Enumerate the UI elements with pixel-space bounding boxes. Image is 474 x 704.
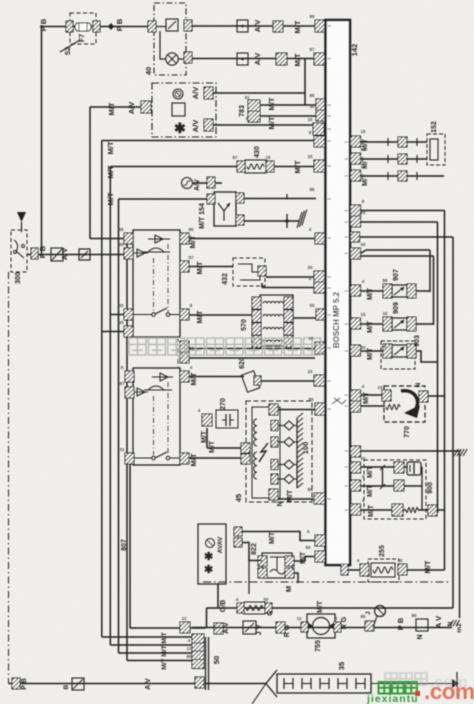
822 conn l2 [258,568,267,578]
wire 783 b [260,115,317,117]
spark plug 2 [271,437,278,447]
relay1 diode top [155,235,163,243]
wire 152 c [361,175,445,177]
wire 432 to relay [189,266,233,268]
wire relay1 r1 to ecu [189,238,316,240]
RG box [276,622,285,633]
inductor row body [244,602,265,614]
junction v41 [40,253,43,256]
ecu connector R15 [351,480,361,491]
wire 900 row2 [361,509,393,511]
ecu connector L10 [314,271,325,282]
wire fuse row horizontal [42,26,151,28]
relay2 conn right2 [180,453,189,464]
wire 620 to ecu [261,380,315,382]
wire 430 right [274,166,314,168]
900 conn a [394,462,404,473]
ecu connector L16 [315,403,326,415]
570 coil a [263,302,283,304]
box 40 connector left [148,21,156,32]
alternator conn right1 [236,193,244,203]
wire bus b [361,221,438,223]
wire 45 top to ecu [278,409,316,411]
capacitor 270 conn [202,414,212,426]
wire 900 b [361,485,395,487]
relay2 box [133,368,180,465]
755 conn right [334,622,341,632]
strip 35 pin 3 [319,678,321,689]
wire bus c [360,236,454,238]
570 conn col left a [252,297,261,309]
injector 903 [383,344,392,358]
wire 255 left [347,569,360,571]
tick 152 2 [387,155,389,163]
ignition switch 300 box [11,230,27,272]
ecu connector R12 [351,401,361,412]
wire 770 ret [428,395,445,397]
relay2 dashdot b [167,382,169,455]
spark plug 3 [271,460,278,470]
ecu connector L12 [316,309,326,320]
wire stair2 [110,644,192,646]
wire switch out [27,254,124,256]
wire relay2 left down 807 [129,464,131,628]
box 40 connector right top [184,20,192,31]
wire 770 a [361,394,384,396]
knock sensor 620 [241,371,259,392]
570 conn col left c [252,323,261,335]
wire avav drop [217,583,219,608]
ac connector right bottom [204,119,213,131]
755 splice [365,621,374,631]
770 conn b [419,391,428,402]
splice box2 [79,249,90,260]
alternator conn left [207,194,215,204]
relay2 contact [152,456,156,460]
fan symbol [173,89,183,99]
wire inj3 ret [416,351,438,362]
tick 152 3 [387,172,389,180]
wire 807 to conn [130,627,180,629]
ecu connector L4 [316,110,326,121]
wire 822 r2 down [292,573,298,583]
50 conn stack b [192,643,204,652]
logo jiexiantu [379,682,391,694]
strip 35 body [277,674,371,693]
wire ac left [90,106,141,108]
822 conn r2 [285,568,294,578]
wire battery feed vertical [41,27,43,254]
relay1 conn left3 [124,309,133,320]
capacitor plates [222,419,226,421]
relay1 conn left4 [124,326,133,337]
connector 152 dashed box [427,134,445,165]
relay1 contact [152,313,156,317]
wire y199 [119,198,208,200]
ecu connector L6 [314,136,325,147]
relay1 transistor [148,248,164,252]
connector 152 inner [430,139,438,160]
900 conn b [394,480,404,491]
relay2 diode top [160,373,168,381]
component 430 conn right [266,161,274,172]
relay2 conn left2 [125,387,134,398]
sensor 432 inner [238,264,260,280]
key symbol [17,212,26,222]
ECU BOSCH MP 5.2 body [326,20,351,565]
node junction top [40,25,43,28]
horn circle [375,606,386,617]
component 783 box b [248,111,260,122]
bus vertical 3 [118,199,120,653]
relay2 dashdot a [153,396,155,455]
wire bus e [361,255,434,257]
strip 35 pin 4 [337,678,339,689]
motor 755 [307,614,335,638]
ecu connector L2 [314,53,325,65]
strip 35 pin 2 [301,678,303,689]
wire 432 sig b [262,287,314,289]
wire relay1 l3 [110,314,124,316]
ecu connector R4 [351,205,361,216]
fuse F7 body [75,23,91,31]
fuse F7 connector left [66,21,73,32]
wire ground tick upper [286,194,288,200]
ECU pin ticks [328,25,332,27]
wire bus a drop [444,211,446,571]
wire relay2 r2 stub [189,376,244,378]
wire 154 lower [244,220,299,222]
wire 570 to ecu [293,317,317,319]
spark plug 1 [271,421,278,431]
ecu connector R5 [351,216,361,227]
wire row1 [192,25,316,27]
relay1 conn right1 [180,233,189,244]
square symbol [172,103,185,116]
fuse F7 dashed box [70,13,96,44]
wire row2 [192,58,314,60]
wire ac bus vertical [89,107,91,239]
inductor row conn r [265,603,272,613]
wire 783 a [260,104,317,106]
wire bottom long [9,683,267,685]
900 row2 resistor [406,508,418,513]
ecu connector R8 [351,285,361,296]
splice row1 b [273,21,283,32]
bus vertical 4 [126,239,128,661]
injector 903 dashed [381,341,415,369]
alternator star symbol [218,203,224,211]
relay1 conn right2 [180,261,189,272]
45 conn left b [241,454,250,464]
inductor 255 dashed [368,559,399,582]
strip 35 chevron [266,670,277,697]
wire branch row2 down [304,59,306,106]
ecu connector L1 [315,20,326,32]
strip 35 pin 5 [355,678,357,689]
strip 35 tail [371,683,457,685]
wire avav conn2 path [242,543,262,561]
wire 152 a [361,141,428,143]
wire inj3 [361,350,384,352]
ecu connector L7 [314,160,325,172]
ecu connector R16 [351,504,361,515]
relay1 conn bottom [180,341,189,352]
wire 770 b [361,405,386,407]
822 conn l1 [258,556,267,566]
tach circle S [182,178,193,189]
900 battery [407,462,421,475]
ecu connector R2 [351,153,361,164]
900 wire inner [404,466,407,468]
relay2 conn left1 [125,371,134,382]
wire row 627 [192,627,452,629]
injector 907 [383,284,392,298]
relay1 diode left [137,249,145,257]
avav box [198,524,226,584]
alternator conn right2 [236,215,244,225]
injector 909 [383,317,392,331]
wire 432 sig a [266,276,314,278]
45 inner frame [252,407,280,498]
wire inside box40 [156,26,166,28]
wire ground cross [286,214,288,228]
ecu connector R9 [351,318,361,329]
wire 900 a [361,466,395,468]
avav conn2 [234,538,242,547]
ignition block 45 dashed [246,401,312,502]
alternator 154 box [214,192,236,226]
770 resistor [386,405,400,410]
actuator 770 frame [384,386,425,422]
255 conn left [360,564,369,576]
570 coil c [263,328,283,330]
relay1 dashdot a [153,258,155,312]
ecu connector R10 [351,345,361,356]
relay2 conn right top [180,352,189,363]
ecu connector L14 [314,375,325,386]
45 coil bottom [254,452,257,479]
ecu connector L5 [313,123,324,135]
bottom slash box [72,678,84,690]
ecu connector L13 [315,342,326,354]
splice row2 b [276,53,287,65]
wire bus c drop [452,237,454,608]
inductor row conn l [237,603,244,613]
relay1 conn left2 [124,248,133,259]
lamp in box 40 [166,53,178,65]
45 conn bottom [269,489,278,500]
ecu connector R14 [351,462,361,473]
822 inner [270,556,285,558]
ECU inner switch [332,398,340,404]
900 row2 conn [392,504,403,516]
switch conn [31,248,38,259]
wire ecu bottom a [242,532,315,541]
bus vertical 2 [109,167,111,646]
relay2 diode left [137,388,145,396]
wire row 608 [207,607,454,609]
watermark company text [129,338,146,355]
coil pack 570 outline [260,295,293,346]
splice slash box [51,248,63,261]
ecu connector L15 [314,493,325,504]
ac panel box [152,83,216,137]
45 conn top [269,404,278,415]
755 inlet box [214,623,223,634]
50 conn bottom [195,677,204,688]
JV box [243,621,256,634]
sensor 432 box [233,258,265,286]
570 conn col right c [284,323,293,335]
wire inj2 ret [416,323,434,325]
wire 255 right [407,569,445,571]
ecu connector R1 [351,136,361,147]
wire 152 b [361,158,428,160]
wire bus a [361,210,445,212]
avav fan [206,539,215,548]
splice row1 a [237,20,248,32]
570 conn col left b [252,310,261,322]
570 conn col left d [252,336,261,348]
wire inj2 [361,323,384,325]
relay1 box [133,230,180,337]
wire y348 relay bottom [189,348,316,350]
splice diamond [108,23,114,30]
ecu bottom conn b [315,551,325,562]
avav conn1 [234,527,242,536]
component 430 conn left [237,161,245,172]
wire 807 conn to bracket [190,627,206,629]
strip 35 pin 1 [283,678,285,689]
wire 270 drop [206,428,208,448]
wire 154 to ecu [244,198,316,200]
wire relay1 l4 [102,331,124,333]
50 conn stack a [192,634,204,643]
wire stair4 [127,660,192,662]
N box row [416,619,428,631]
wire bus d drop [429,250,431,292]
ground hatch right [454,449,458,456]
570 conn col right d [284,336,293,348]
255 body [371,563,395,577]
570 coil d [263,340,283,342]
diag box 900 dashed [364,460,426,519]
wire 45 left feed b [189,457,241,459]
dashdot between relays [177,337,179,368]
wire bus d [361,250,431,254]
switch S2 slash [60,40,80,52]
ground hatch mid [297,212,302,228]
wire 430 left [110,166,238,168]
wire bus b drop [437,222,439,513]
570 conn col right b [284,310,293,322]
570 conn col right a [284,297,293,309]
45 coil top [254,419,257,446]
tick 152 1 [387,138,389,146]
wire long y140 [102,140,314,142]
wire tach stub [193,182,208,184]
sensor 432 conn [258,266,266,276]
wire 45 bottom to ecu [278,498,314,500]
component 783 box a [248,100,260,111]
splice row2 a [237,53,248,65]
ecu connector L11 [314,282,325,293]
wire stair3 [119,652,193,654]
divider dash-dot 2 [203,581,451,583]
770 arrow [401,391,418,409]
bottom conn PB [12,678,20,689]
sensor 822 box [262,553,292,578]
50 conn stack d [192,660,204,669]
ac connector right top [204,87,213,99]
900 row2 box [428,505,437,516]
255 conn right [398,564,407,575]
wire stair1 [102,636,192,638]
plug ground wall [296,418,298,488]
ecu bottom conn a [315,535,325,546]
ecu connector R13 [351,446,361,457]
fuse F7 connector right [93,21,100,32]
wire relay2 top right [189,357,315,359]
wire 45 left feed a [207,447,241,449]
wire ecu bottom b [292,557,315,562]
ecu connector R7 [351,248,361,259]
component 430 body [245,160,266,173]
45 conn left a [241,443,250,453]
ground m2 [450,620,454,626]
relay1 dashdot b [167,244,169,312]
relay1 conn left1 [124,233,133,244]
relay2 conn right1 [180,371,189,382]
tach conn [207,177,215,188]
relay2 coil [148,386,164,390]
relay2 conn left3 [125,453,134,464]
relay1 conn right3 [180,309,189,320]
ac connector left [141,101,151,113]
capacitor 270 box [216,410,238,428]
wire inj1 [361,290,384,292]
wire inj1 ret [416,290,430,292]
bus vertical 1 [101,141,103,638]
ecu connector R11 [351,390,361,401]
ecu connector R3 [351,170,361,181]
50 conn stack c [192,651,204,660]
ecu connector R6 tick [354,234,360,240]
wire ac bottom to ecu [213,124,313,126]
wire ac top to bus [213,92,305,94]
ecu connector L9 [315,233,326,244]
755 conn left [301,622,308,632]
spark plug 4 [271,474,278,484]
822 conn r1 [285,556,294,566]
box 40 connector right bottom [184,52,192,63]
570 coil b [263,315,283,317]
ecu connector L3 [316,99,326,110]
wire ground right [361,450,462,452]
instrument box 40 outline [154,3,186,75]
wire switch gnd drop [8,272,10,684]
conn 807 row [180,622,190,633]
770 conn a [382,390,391,401]
switch contacts [14,251,17,254]
50 bracket [205,637,207,690]
wire relay to 570 [189,314,252,316]
45 bolt [259,443,268,462]
gauge in box 40 [166,19,178,31]
